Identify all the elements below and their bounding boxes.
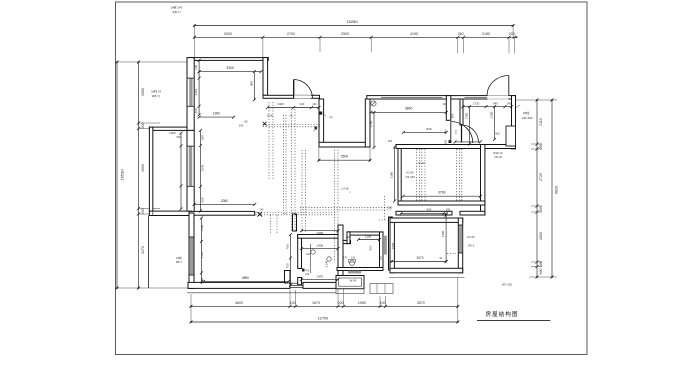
svg-text:K2-0b: K2-0b [467,235,475,239]
svg-text:200: 200 [141,123,145,129]
svg-text:940: 940 [300,102,305,106]
svg-text:1670: 1670 [312,301,320,305]
svg-text:3470: 3470 [141,246,145,254]
svg-text:9020: 9020 [555,186,559,194]
svg-text:690: 690 [539,269,543,275]
svg-text:1400: 1400 [277,102,284,106]
svg-text:2700: 2700 [287,32,295,36]
svg-text:240: 240 [346,235,351,239]
svg-text:200: 200 [509,32,515,36]
svg-text:3570: 3570 [417,301,425,305]
svg-text:∅6-20: ∅6-20 [417,161,425,165]
svg-text:#B-Y: #B-Y [176,260,182,264]
svg-text:250: 250 [388,139,393,143]
svg-text:600: 600 [176,135,181,139]
svg-text:3060: 3060 [141,88,145,96]
svg-text:2080: 2080 [221,199,228,203]
svg-text:1805: 1805 [391,242,395,249]
svg-text:940: 940 [426,127,431,131]
svg-text:1430: 1430 [194,89,198,96]
svg-text:3800: 3800 [405,107,413,111]
svg-text:4890: 4890 [242,276,249,280]
svg-text:900: 900 [249,81,253,86]
svg-text:2500: 2500 [341,154,349,158]
svg-text:1100: 1100 [200,224,204,231]
svg-text:1700: 1700 [465,112,469,119]
svg-text:260: 260 [458,32,464,36]
svg-text:900: 900 [368,245,372,250]
svg-text:2110: 2110 [539,118,543,126]
svg-text:1130: 1130 [365,234,372,238]
svg-text:16530: 16530 [120,169,125,181]
svg-text:120: 120 [351,257,356,260]
svg-text:4000: 4000 [141,164,145,172]
svg-text:300: 300 [378,255,382,260]
svg-text:2720: 2720 [539,173,543,181]
svg-text:1540: 1540 [200,164,204,171]
svg-text:3760: 3760 [438,191,446,195]
svg-text:#(B-Y): #(B-Y) [172,10,180,14]
svg-text:240: 240 [444,139,448,144]
svg-text:160: 160 [194,108,198,113]
svg-text:90: 90 [245,120,248,124]
svg-text:100: 100 [442,102,447,106]
svg-text:1720: 1720 [473,101,480,105]
svg-text:1470: 1470 [316,274,323,278]
svg-text:2390: 2390 [389,171,393,178]
svg-text:2860: 2860 [539,232,543,240]
svg-text:3300: 3300 [226,66,234,70]
svg-text:4600: 4600 [235,301,243,305]
svg-text:(a): (a) [329,115,332,119]
svg-text:240: 240 [507,101,512,105]
svg-text:∅: ∅ [349,191,351,194]
svg-text:房屋结构图: 房屋结构图 [486,310,519,318]
svg-text:200: 200 [338,301,344,305]
svg-text:940: 940 [493,101,498,105]
svg-text:1300: 1300 [490,111,494,118]
svg-text:600: 600 [200,135,204,140]
svg-text:770: 770 [454,129,458,134]
svg-text:B-06: B-06 [267,114,273,118]
svg-text:∅6-1: ∅6-1 [468,244,475,248]
svg-text:780: 780 [285,244,289,249]
svg-text:2070: 2070 [416,256,423,260]
svg-text:5300: 5300 [224,32,232,36]
svg-text:1#柱 24: 1#柱 24 [151,90,161,94]
svg-text:300: 300 [539,206,543,212]
svg-text:160: 160 [194,64,198,69]
svg-text:600: 600 [495,132,500,136]
svg-text:1400: 1400 [316,231,323,235]
svg-text:170: 170 [343,257,348,260]
svg-text:490: 490 [451,113,455,118]
svg-text:240: 240 [444,129,448,134]
svg-text:1750: 1750 [369,120,373,127]
svg-text:1400: 1400 [316,244,323,248]
svg-text:2180: 2180 [482,32,490,36]
svg-text:12700: 12700 [318,317,329,321]
svg-text:15280: 15280 [346,19,358,24]
svg-text:240: 240 [260,209,265,212]
svg-text:B∅-150: B∅-150 [502,283,512,287]
svg-text:1300: 1300 [169,131,176,135]
svg-text:#(B-Y): #(B-Y) [152,94,160,98]
svg-text:1900: 1900 [213,112,220,116]
svg-text:200: 200 [141,208,145,214]
svg-text:240: 240 [239,124,244,128]
svg-text:120: 120 [305,273,310,276]
svg-text:250: 250 [539,144,543,150]
svg-text:600: 600 [200,197,204,202]
svg-text:1720: 1720 [200,251,204,258]
svg-text:120: 120 [306,253,311,256]
svg-text:2#柱: 2#柱 [523,110,529,115]
svg-text:2140: 2140 [325,260,329,267]
svg-text:240: 240 [313,103,318,106]
svg-text:∅2-06: ∅2-06 [341,187,349,191]
svg-text:100: 100 [290,301,296,305]
svg-text:100: 100 [380,301,386,305]
svg-text:1980: 1980 [358,301,366,305]
svg-text:∅6-20: ∅6-20 [494,155,502,159]
svg-text:W-06: W-06 [350,279,357,283]
svg-text:2500: 2500 [341,32,349,36]
svg-text:4190: 4190 [410,32,418,36]
svg-text:1400: 1400 [441,230,445,237]
svg-text:940: 940 [427,208,432,212]
svg-text:750: 750 [285,263,289,268]
svg-text:∅6-150: ∅6-150 [405,175,415,179]
svg-text:240×500: 240×500 [522,116,533,120]
svg-text:240: 240 [446,207,451,211]
